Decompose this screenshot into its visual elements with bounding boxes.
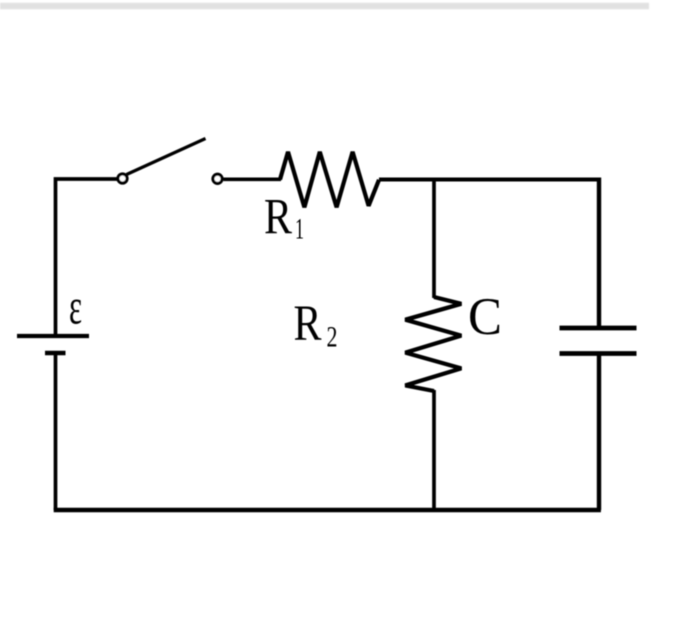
svg-text:R: R: [264, 190, 292, 246]
svg-text:ε: ε: [69, 280, 82, 336]
svg-text:2: 2: [327, 321, 338, 354]
svg-text:C: C: [468, 288, 502, 346]
svg-text:R: R: [294, 296, 322, 352]
svg-text:1: 1: [295, 213, 304, 246]
